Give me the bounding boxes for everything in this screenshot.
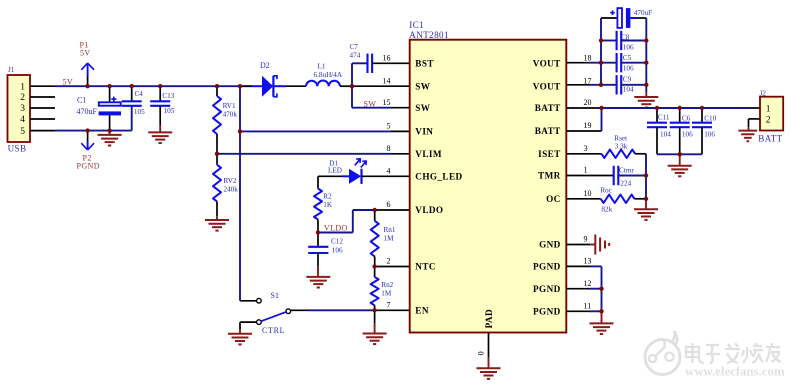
svg-text:C11: C11 bbox=[658, 114, 670, 122]
wire SW node up to C7 bbox=[351, 63, 353, 86]
svg-text:PAD: PAD bbox=[484, 309, 494, 328]
diode D2 schottky bbox=[252, 85, 263, 87]
svg-text:1M: 1M bbox=[381, 290, 392, 298]
wire pin 13 PGND bbox=[566, 265, 589, 267]
resistor Rn1 1M bbox=[374, 210, 376, 221]
wire pin 19 riser to BATT net bbox=[566, 130, 601, 132]
svg-text:L1: L1 bbox=[318, 63, 326, 71]
svg-text:VLDO: VLDO bbox=[415, 205, 443, 215]
svg-text:Roc: Roc bbox=[600, 186, 612, 194]
svg-text:10: 10 bbox=[584, 189, 592, 198]
svg-text:SW: SW bbox=[415, 103, 431, 113]
wire switch bottom contact to ground bbox=[240, 321, 257, 323]
capacitor C11 104 bbox=[656, 108, 658, 123]
wire VLIM net bbox=[217, 153, 391, 155]
ground below OC node bbox=[645, 199, 647, 210]
svg-text:240k: 240k bbox=[224, 186, 239, 194]
svg-text:1: 1 bbox=[20, 82, 25, 92]
svg-text:C4: C4 bbox=[135, 90, 144, 98]
svg-text:NTC: NTC bbox=[415, 262, 436, 272]
connector J2 BATT bbox=[760, 97, 783, 131]
svg-text:USB: USB bbox=[8, 144, 27, 154]
svg-text:PGND: PGND bbox=[533, 262, 561, 272]
wire D2 to L1 bbox=[286, 85, 306, 87]
wire CHG_LED to LED anode bbox=[318, 175, 342, 177]
ground bar symbol at pin 9 bbox=[594, 235, 596, 255]
svg-text:PGND: PGND bbox=[77, 161, 100, 170]
svg-text:1: 1 bbox=[584, 166, 588, 175]
svg-text:GND: GND bbox=[539, 240, 561, 250]
svg-text:5V: 5V bbox=[80, 49, 91, 58]
J1 pin 3 stub bbox=[30, 107, 55, 109]
svg-text:6: 6 bbox=[387, 200, 391, 209]
svg-text:1K: 1K bbox=[323, 201, 333, 209]
svg-text:106: 106 bbox=[623, 65, 634, 73]
svg-text:C5: C5 bbox=[623, 54, 632, 62]
capacitor C13 105 bbox=[159, 86, 161, 101]
ground below EN junction bbox=[374, 310, 376, 323]
J1 pin 1 wire bbox=[30, 85, 55, 87]
ground below J2 pin 2 bbox=[738, 130, 757, 132]
svg-text:3: 3 bbox=[20, 104, 25, 114]
capacitor C7 474 bbox=[366, 54, 368, 73]
svg-text:5: 5 bbox=[387, 122, 391, 131]
wire left rail of VOUT cap cluster bbox=[600, 18, 602, 85]
wire vertical from 5V rail to switch S1 bbox=[239, 86, 241, 301]
svg-text:8: 8 bbox=[387, 144, 391, 153]
wire PGND riser bbox=[601, 266, 603, 311]
svg-text:VLDO: VLDO bbox=[324, 224, 348, 233]
svg-text:www.elecfans.com: www.elecfans.com bbox=[685, 365, 785, 379]
svg-text:C6: C6 bbox=[682, 114, 691, 122]
capacitor C8 106 bbox=[601, 40, 617, 42]
inductor L1 6.8uH/4A bbox=[306, 81, 340, 87]
J1 pin 5 wire bbox=[30, 130, 55, 132]
svg-text:2: 2 bbox=[387, 257, 391, 266]
capacitor C12 106 bbox=[317, 233, 319, 248]
svg-text:Ctmr: Ctmr bbox=[619, 167, 634, 175]
node VLDO junction wire to pin 6 bbox=[318, 232, 353, 234]
wire L1 to SW node bbox=[340, 85, 352, 87]
svg-text:BATT: BATT bbox=[758, 134, 782, 144]
svg-text:C1: C1 bbox=[77, 96, 86, 105]
svg-text:224: 224 bbox=[620, 179, 631, 187]
svg-text:BST: BST bbox=[415, 58, 434, 68]
resistor Roc 82k on pin 10 OC bbox=[566, 198, 600, 200]
svg-text:0: 0 bbox=[477, 351, 486, 355]
ground below C1 bbox=[109, 131, 111, 135]
svg-text:Rn1: Rn1 bbox=[384, 226, 396, 234]
capacitor 470uF electrolytic top bbox=[601, 17, 617, 19]
svg-text:16: 16 bbox=[383, 54, 391, 63]
wire LED cathode to pin 4 bbox=[362, 175, 410, 177]
J1 pin 4 stub bbox=[30, 118, 55, 120]
wire TMR node down to OC node bbox=[645, 176, 647, 199]
capacitor C5 106 and pin 18 wire bbox=[566, 62, 589, 64]
svg-text:IC1: IC1 bbox=[409, 20, 424, 30]
svg-text:C13: C13 bbox=[162, 92, 174, 100]
svg-text:EN: EN bbox=[415, 305, 429, 315]
svg-text:J1: J1 bbox=[8, 66, 15, 74]
wire pin 12 PGND bbox=[566, 288, 589, 290]
svg-text:PGND: PGND bbox=[533, 284, 561, 294]
svg-text:PGND: PGND bbox=[533, 306, 561, 316]
svg-text:470uF: 470uF bbox=[634, 9, 652, 17]
svg-text:9: 9 bbox=[584, 235, 588, 244]
capacitor C4 105 bbox=[131, 86, 133, 101]
svg-text:BATT: BATT bbox=[535, 126, 561, 136]
svg-text:106: 106 bbox=[704, 130, 715, 138]
svg-text:15: 15 bbox=[383, 98, 391, 107]
svg-text:19: 19 bbox=[584, 121, 592, 130]
resistor R2 1K bbox=[317, 176, 319, 188]
svg-text:1: 1 bbox=[766, 105, 771, 115]
ground below PGND riser bbox=[601, 311, 603, 323]
svg-text:SW: SW bbox=[415, 81, 431, 91]
connector J1 bbox=[8, 75, 31, 142]
LED D1 bbox=[342, 175, 349, 177]
svg-text:13: 13 bbox=[584, 257, 592, 266]
svg-text:105: 105 bbox=[134, 108, 145, 116]
svg-text:474: 474 bbox=[350, 52, 361, 60]
svg-text:TMR: TMR bbox=[538, 171, 561, 181]
wire VIN net bbox=[240, 130, 391, 132]
svg-text:6.8uH/4A: 6.8uH/4A bbox=[314, 71, 343, 79]
svg-text:4: 4 bbox=[387, 167, 391, 176]
svg-text:CHG_LED: CHG_LED bbox=[415, 171, 462, 181]
wire EN net bbox=[291, 309, 309, 311]
svg-text:11: 11 bbox=[584, 302, 592, 311]
wire net 5V top rail bbox=[55, 85, 252, 87]
svg-text:S1: S1 bbox=[271, 291, 279, 300]
J1 pin 2 stub bbox=[30, 96, 55, 98]
capacitor C6 106 bbox=[679, 108, 681, 123]
svg-text:18: 18 bbox=[584, 54, 592, 63]
switch S1 bbox=[257, 298, 262, 303]
wire bus below C11 C6 C10 bbox=[657, 153, 702, 155]
wire SW node to pin 14 bbox=[352, 85, 410, 87]
svg-text:12: 12 bbox=[584, 279, 592, 288]
svg-text:5: 5 bbox=[20, 127, 25, 137]
wire C7 to pin 16 BST bbox=[372, 62, 410, 64]
ground below C6 bbox=[679, 154, 681, 165]
svg-text:C8: C8 bbox=[621, 34, 630, 42]
wire to diode D2 bbox=[240, 85, 252, 87]
resistor RV1 470k bbox=[216, 86, 218, 96]
svg-text:VLIM: VLIM bbox=[415, 149, 442, 159]
wire right rail of cap cluster bbox=[645, 18, 647, 92]
svg-text:4: 4 bbox=[20, 115, 25, 125]
svg-text:C9: C9 bbox=[623, 75, 632, 83]
ground below C13 bbox=[159, 125, 161, 132]
svg-text:20: 20 bbox=[584, 98, 592, 107]
resistor Rn2 1M bbox=[374, 267, 376, 278]
svg-text:D2: D2 bbox=[260, 61, 270, 70]
ground below PAD bbox=[477, 367, 501, 369]
wire Rset down to TMR node bbox=[645, 154, 647, 176]
svg-text:VIN: VIN bbox=[415, 127, 433, 137]
svg-text:7: 7 bbox=[387, 301, 391, 310]
pin 0 PAD stub to ground bbox=[488, 333, 490, 358]
svg-text:OC: OC bbox=[546, 194, 561, 204]
svg-text:RV2: RV2 bbox=[224, 177, 237, 185]
svg-text:J2: J2 bbox=[760, 89, 767, 97]
wire pin 11 PGND bbox=[566, 310, 589, 312]
power port P1 5V bbox=[87, 76, 89, 86]
capacitor C9 104 and pin 17 wire bbox=[566, 84, 589, 86]
svg-text:RV1: RV1 bbox=[223, 102, 236, 110]
svg-text:2: 2 bbox=[766, 116, 771, 126]
svg-text:470uF: 470uF bbox=[77, 107, 98, 116]
svg-text:3: 3 bbox=[584, 144, 588, 153]
ground below C12 bbox=[317, 267, 319, 277]
J2 pin 2 to ground bbox=[749, 118, 761, 120]
svg-text:VOUT: VOUT bbox=[533, 58, 561, 68]
svg-text:C12: C12 bbox=[331, 238, 343, 246]
svg-text:BATT: BATT bbox=[535, 103, 561, 113]
svg-text:SW: SW bbox=[364, 99, 377, 108]
svg-text:CTRL: CTRL bbox=[262, 326, 285, 335]
svg-text:104: 104 bbox=[660, 130, 671, 138]
svg-text:106: 106 bbox=[332, 247, 343, 255]
svg-text:ANT2801: ANT2801 bbox=[409, 30, 449, 40]
wire pin 9 GND to ground bar bbox=[566, 244, 590, 246]
svg-text:ISET: ISET bbox=[538, 149, 561, 159]
watermark chinese text bbox=[686, 343, 781, 363]
svg-text:Rn2: Rn2 bbox=[381, 281, 393, 289]
wire to C4 bottom bbox=[131, 106, 133, 131]
wire SW node down to pin 15 bbox=[351, 86, 353, 108]
capacitor Ctmr 224 on pin 1 TMR bbox=[566, 175, 613, 177]
capacitor C1 470uF electrolytic bbox=[109, 86, 111, 102]
ground below RV2 bbox=[216, 216, 218, 220]
svg-text:104: 104 bbox=[623, 85, 634, 93]
junction dots bbox=[85, 84, 89, 88]
svg-text:105: 105 bbox=[164, 107, 175, 115]
svg-text:3.3k: 3.3k bbox=[615, 143, 628, 151]
resistor RV2 240k bbox=[216, 154, 218, 165]
svg-text:106: 106 bbox=[682, 130, 693, 138]
resistor Rset 3.3k on pin 3 ISET bbox=[566, 153, 601, 155]
svg-text:Rset: Rset bbox=[614, 134, 627, 142]
svg-text:106: 106 bbox=[623, 44, 634, 52]
wire to switch top contact bbox=[240, 300, 257, 302]
svg-text:C10: C10 bbox=[704, 114, 716, 122]
power port P2 PGND bbox=[87, 131, 89, 141]
svg-text:C7: C7 bbox=[350, 43, 359, 51]
wire PGND bottom rail bbox=[55, 130, 132, 132]
wire NTC pin 2 bbox=[375, 266, 410, 268]
watermark elecfans logo bbox=[645, 331, 680, 375]
svg-text:82k: 82k bbox=[601, 206, 612, 214]
ground below switch CTRL bbox=[239, 329, 241, 334]
op-amp U1 IC1 ANT2801 body bbox=[410, 40, 567, 333]
capacitor C10 106 bbox=[701, 108, 703, 123]
svg-text:R2: R2 bbox=[323, 193, 332, 201]
svg-text:1M: 1M bbox=[384, 234, 395, 242]
svg-text:5V: 5V bbox=[63, 78, 74, 87]
wire BATT net pin 20 to J2 bbox=[566, 107, 598, 109]
svg-text:2: 2 bbox=[20, 93, 25, 103]
svg-text:VOUT: VOUT bbox=[533, 81, 561, 91]
ground below right rail bbox=[645, 92, 647, 97]
svg-text:14: 14 bbox=[383, 76, 391, 85]
svg-text:LED: LED bbox=[328, 166, 342, 174]
svg-text:470k: 470k bbox=[223, 111, 238, 119]
